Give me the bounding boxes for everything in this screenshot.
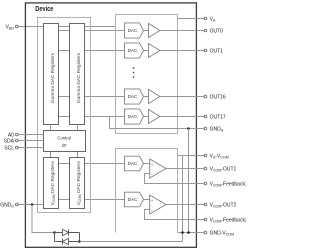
wire diode net to rail — [80, 241, 183, 243]
wire V_COM-Feedback2 — [145, 210, 204, 220]
wire V_COM-Feedback1 — [145, 174, 204, 184]
ellipsis dots channel column — [133, 67, 135, 69]
terminal V_COM-OUT1 — [204, 167, 207, 170]
buffer amplifier row 1 — [149, 23, 160, 37]
rail GND_A to GND-V_COM — [188, 129, 190, 233]
svg-text:SDA: SDA — [4, 138, 15, 144]
wire GND_A — [110, 117, 204, 129]
DAC row 1 — [125, 23, 144, 38]
wire stub register1 to control — [50, 125, 52, 132]
terminal V_COM-Feedback2 — [204, 218, 207, 221]
wire gamma DAC row 4 input — [59, 116, 125, 118]
terminal V_COM-Feedback1 — [204, 182, 207, 185]
wire A0 — [18, 134, 43, 136]
svg-text:OUT1: OUT1 — [210, 48, 224, 54]
junction GND_D — [31, 203, 34, 206]
svg-text:DAC: DAC — [128, 94, 138, 99]
wire DAC4 to buffer4 — [144, 116, 149, 118]
svg-text:OUT17: OUT17 — [210, 114, 226, 120]
terminal A0 — [15, 133, 18, 136]
wire stub control to V_COM register1 — [50, 151, 52, 158]
junction diode left node — [53, 231, 56, 234]
svg-text:OUT0: OUT0 — [210, 28, 224, 34]
wire V_COM DAC2 to op-amp2 — [144, 199, 150, 201]
terminal SCL — [15, 146, 18, 149]
svg-text:DAC: DAC — [128, 161, 138, 166]
wire V_COM-OUT1 — [166, 168, 204, 170]
wire stub register2 to control — [77, 125, 79, 132]
wire gamma DAC row 1 input — [59, 30, 125, 32]
wire upper diode branch — [55, 232, 80, 234]
V_COM DAC 2 pentagon — [125, 192, 144, 207]
terminal GND_D — [15, 203, 18, 206]
register box Gamma DAC Registers 1 — [44, 24, 59, 125]
diode D1 (points right) — [63, 229, 69, 235]
V_COM DAC 1 pentagon — [125, 156, 144, 171]
wire gamma DAC row 2 input — [59, 50, 125, 52]
wire V_S-V_COM — [178, 155, 204, 157]
wire GND_D — [18, 204, 43, 206]
V_COM output box — [116, 149, 178, 233]
wire V_COM DAC 1 input — [59, 163, 125, 165]
svg-text:SCL: SCL — [4, 145, 14, 151]
svg-text:+: + — [151, 162, 154, 167]
terminal V_COM-OUT2 — [204, 203, 207, 206]
terminal V_A — [204, 17, 207, 20]
svg-text:+: + — [151, 198, 154, 203]
svg-text:DAC: DAC — [128, 48, 138, 53]
control I/F box — [44, 131, 86, 152]
wire SCL — [18, 147, 43, 149]
junction rail on GND-V_COM — [181, 231, 184, 234]
terminal OUT1 — [204, 49, 207, 52]
svg-text:I/F: I/F — [62, 143, 67, 148]
DAC row 2 — [125, 43, 144, 58]
svg-text:OUT16: OUT16 — [210, 94, 226, 100]
wire stub control to V_COM register2 — [77, 151, 79, 158]
wire gamma DAC row 3 input — [59, 96, 125, 98]
wire GND-V_COM — [178, 232, 204, 234]
svg-text:DAC: DAC — [128, 28, 138, 33]
svg-text:Gamma DAC Registers: Gamma DAC Registers — [76, 52, 82, 103]
svg-text:Device: Device — [35, 6, 53, 14]
junction GND_A rail top — [187, 127, 190, 130]
wire diode right bar — [79, 233, 81, 242]
wire V_COM DAC1 to op-amp1 — [144, 163, 150, 165]
wire V_COM DAC 2 input — [59, 199, 125, 201]
terminal SDA — [15, 139, 18, 142]
diode D2 (points left) — [63, 238, 69, 244]
rail V_S column to diode net — [182, 156, 184, 242]
wire lower diode branch — [55, 241, 80, 243]
register box V_COM DAC Registers 1 — [44, 158, 59, 209]
DAC row 3 — [125, 89, 144, 104]
svg-text:DAC: DAC — [128, 197, 138, 202]
terminal V_DD — [15, 25, 18, 28]
wire DAC1 to buffer1 — [144, 30, 149, 32]
wire V_COM-OUT2 — [166, 204, 204, 206]
wire OUT1 — [160, 50, 204, 52]
wire OUT16 — [160, 96, 204, 98]
buffer amplifier row 2 — [149, 43, 160, 57]
svg-text:Control: Control — [57, 135, 71, 140]
buffer amplifier row 4 — [149, 109, 160, 123]
svg-text:Gamma DAC Registers: Gamma DAC Registers — [50, 52, 56, 103]
register box Gamma DAC Registers 2 — [70, 24, 85, 125]
wire GND_D down to diodes — [32, 205, 55, 233]
terminal GND_A — [204, 127, 207, 130]
wire diode left bar — [54, 233, 56, 242]
buffer amplifier row 3 — [149, 89, 160, 103]
terminal GND-V_COM — [204, 231, 207, 234]
wire OUT17 — [160, 116, 204, 118]
terminal OUT0 — [204, 29, 207, 32]
svg-text:DAC: DAC — [128, 114, 138, 119]
device outer box — [25, 3, 196, 247]
op-amp U1 — [150, 159, 166, 178]
terminal V_S-V_COM — [204, 154, 207, 157]
wire SDA — [18, 140, 43, 142]
wire DAC2 to buffer2 — [144, 50, 149, 52]
junction rail bottom on GND-V_COM — [187, 231, 190, 234]
junction diode right node — [78, 240, 81, 243]
op-amp U2 — [150, 195, 166, 214]
digital section box — [38, 18, 91, 213]
terminal OUT16 — [204, 95, 207, 98]
terminal OUT17 — [204, 115, 207, 118]
gamma DAC output box — [116, 15, 178, 134]
wire DAC3 to buffer3 — [144, 96, 149, 98]
wire V_DD net — [18, 26, 115, 28]
DAC row 4 — [125, 109, 144, 124]
wire OUT0 — [160, 30, 204, 32]
register box V_COM DAC Registers 2 — [70, 158, 85, 209]
wire V_A — [178, 18, 204, 20]
